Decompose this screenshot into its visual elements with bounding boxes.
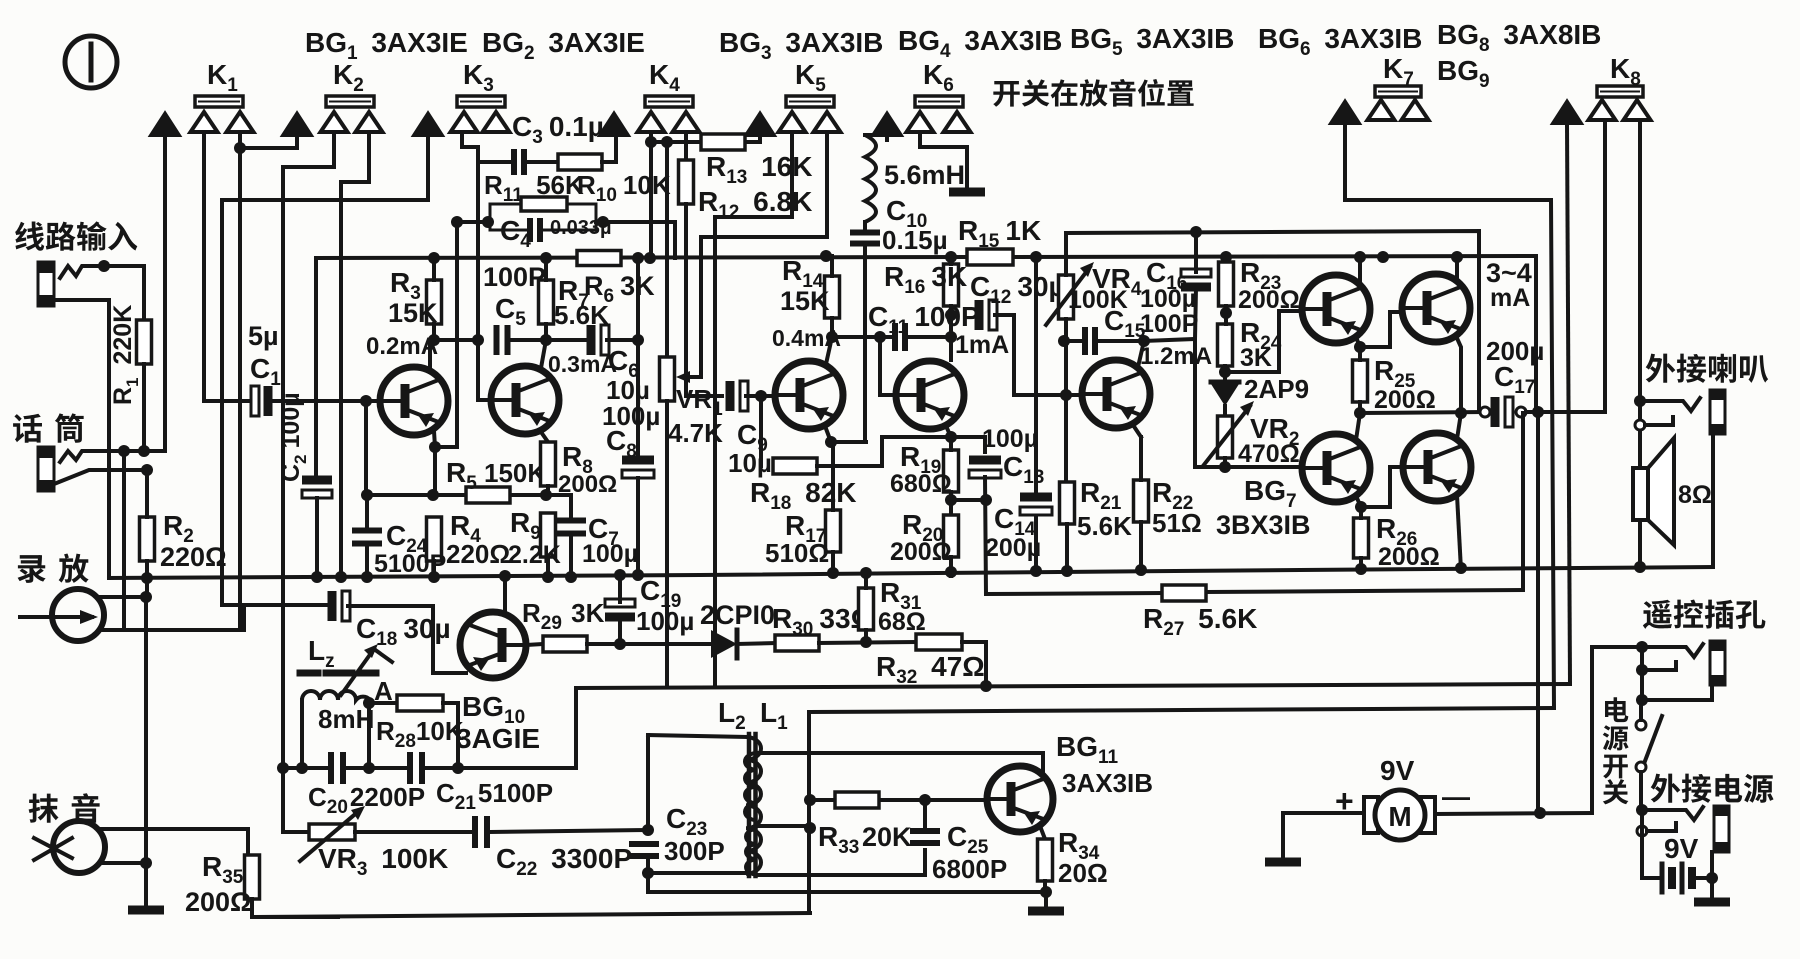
junction bias row R4 [427,489,439,501]
junction node A [363,697,375,709]
wire L1 center tap [757,824,810,828]
capacitor C19 (electrolytic) [605,599,635,607]
resistor R28 [397,695,443,711]
svg-text:300P: 300P [664,836,725,866]
wire BG5 base column [1064,341,1068,395]
svg-text:10µ: 10µ [728,448,772,478]
bus junction R4 [428,571,440,583]
figure number badge (1) [65,36,117,88]
resistor R4 [427,517,442,561]
resistor R11 [521,197,567,211]
wire R1 bottom [142,364,146,452]
bus junction speaker [1634,561,1646,573]
switch K1 bar [195,96,243,107]
wire BG10 collector [503,576,507,614]
bus junction R21 [1061,565,1073,577]
wire head riser to C18 row [242,606,246,630]
open contact arrow at x=1637 [1624,100,1651,120]
svg-text:9V: 9V [1664,833,1699,864]
svg-text:15K: 15K [780,286,830,316]
wire C13 bottom to R27 row [985,477,986,594]
resistor R20 [944,515,959,557]
wire collector row y340 left [434,338,478,342]
wire R32 right down [962,642,986,686]
svg-text:8Ω: 8Ω [1678,481,1712,509]
wire BG5 base lead [1066,393,1082,397]
transistor BG5 [1082,360,1150,428]
bus junction R22 [1135,564,1147,576]
wire C10 to BG3 emitter node [863,244,867,442]
bus A junction K7 contact [1377,251,1389,263]
wire BG6 collector [1358,257,1362,281]
wire speaker feed down [1536,412,1540,812]
junction BG4 emitter [945,431,957,443]
switch K2 bar [326,96,374,107]
svg-text:200Ω: 200Ω [185,887,252,917]
wire C4 left node [457,220,490,224]
wire R16 bottom to collector [949,315,953,360]
wire tri x240 shaft [238,134,242,630]
wire BG11 emitter [1040,826,1045,839]
wire C23 bottom [648,856,1046,892]
junction R3 bottom [428,334,440,346]
open contact arrow at x=686 [673,112,700,132]
junction speaker jack top [1634,395,1646,407]
svg-text:680Ω: 680Ω [890,470,952,498]
VR4 arrow [1046,267,1090,325]
junction BG1 base [360,395,372,407]
resistor R8 [541,442,556,486]
wire C5 right [509,338,590,342]
bus junction R26 [1355,563,1367,575]
svg-text:200Ω: 200Ω [1374,386,1436,414]
capacitor C13 (electrolytic) [969,456,1001,465]
bottom bus [252,913,810,917]
wire R19 stems [949,437,953,450]
wire ext jack sleeve [1710,852,1714,898]
power switch lever [1645,716,1662,761]
wire VR3 to C22 [355,830,472,834]
resistor R7 [539,280,554,324]
resistor R21 [1060,482,1075,524]
wire VR4 bottom [1064,319,1068,341]
wire motor to remote jack [1592,647,1642,813]
junction VR2 bottom [1219,461,1231,473]
junction R32 on bus2 [980,680,992,692]
rail y232 output stage [1066,231,1479,412]
wire R31 stems [864,573,868,588]
wire diode to VR2 [1223,406,1227,416]
resistor R15 [967,249,1013,265]
transistor BG2 [491,366,559,434]
svg-text:3AGIE: 3AGIE [456,723,540,754]
junction C12 node [945,309,957,321]
svg-text:—: — [1442,781,1470,812]
junction R23-R24 [1220,307,1232,319]
ext jack ring contact [1637,826,1647,836]
transistor BG7b [1403,433,1471,501]
wire x1036 column upper [1034,257,1038,495]
filled contact arrow at x=1567 [1552,100,1583,124]
svg-text:100µ: 100µ [582,540,638,568]
svg-text:3BX3IB: 3BX3IB [1216,510,1311,540]
wire R6 right column [636,258,640,455]
resistor R17 [826,510,841,552]
svg-text:15K: 15K [388,298,438,328]
wire VR1 bottom [665,401,669,687]
wire tri827 path [701,134,827,377]
wire erase upper lead [100,829,248,855]
label R1 220K [109,305,142,405]
junction C15 right [1138,335,1150,347]
junction mic sleeve [141,464,153,476]
junction remote top [1636,641,1648,653]
R11-C4 left link [490,204,530,230]
svg-text:M: M [1388,801,1411,832]
wire k-column x124 down [122,451,126,628]
capacitor C12 (electrolytic) [975,300,984,330]
transistor BG10 [460,612,526,678]
wire jack sleeve down [1711,434,1715,567]
transformer core [747,734,752,876]
svg-text:100µ: 100µ [982,425,1038,453]
junction C6 right [632,334,644,346]
wire L2 legs [648,871,746,875]
transistor BG3 [775,361,843,429]
wire BG4 emitter [946,426,951,437]
wire BG2 collector [541,340,546,368]
junction K4 wire [645,136,657,148]
wire C13 branch [951,437,985,452]
junction BG3 emitter [825,436,837,448]
wire battery right [1694,876,1712,880]
bus junction x341 [335,571,347,583]
wire L1 top lead [757,753,1043,775]
filled contact arrow at x=1345 [1330,100,1361,124]
label 话筒 [13,413,84,442]
open contact arrow at x=464 [451,112,478,132]
wire R33 row [810,798,835,802]
filled contact arrow at x=887 [872,112,903,136]
svg-text:510Ω: 510Ω [765,538,829,568]
resistor R27 [1162,585,1206,601]
wire R26 stems [1359,507,1363,518]
speaker jack tip contact [1640,398,1700,411]
wire line-in to R1 [104,266,144,320]
junction BG7a collector [1355,501,1367,513]
mic tip contact [60,451,165,462]
wire R20 bottom [949,557,953,576]
wire emitter row to C10 column [831,440,866,444]
bus junction R9 [542,571,554,583]
wire C3 row [478,160,514,164]
wire head upper lead [98,595,148,599]
speaker jack body [1710,390,1725,434]
switch K4 bar [645,96,693,107]
wire BG10 base to R29 [526,644,543,645]
wire BG7a emitter [1356,413,1360,440]
resistor R25 [1353,360,1368,402]
wire diode to R30 [737,643,775,644]
svg-text:200µ: 200µ [985,534,1041,562]
resistor R31 [859,588,874,630]
wire R34 bottom [1043,881,1047,892]
label 外接喇叭 [1646,354,1768,383]
resistor R13 [701,134,745,150]
open contact arrow at x=334 [321,112,348,132]
open contact arrow at x=204 [191,112,218,132]
wire L1 bottom lead [757,850,925,875]
label 录放 [18,554,89,583]
bus junction BG7b [1455,562,1467,574]
bus junction R17 [827,567,839,579]
wire R28 right [443,703,458,768]
wire R12 bottom to C9 [686,204,722,396]
wire choke to C10 [863,222,867,230]
contact circle C17 right [1516,407,1526,417]
capacitor C22 [472,816,478,848]
bus junction C24 [361,571,373,583]
capacitor C9 (electrolytic) [726,381,735,411]
speaker body [1633,468,1648,520]
open contact arrow at x=920 [907,112,934,132]
junction bias row R9 [540,489,552,501]
open contact arrow at x=240 [227,112,254,132]
junction C5 left [472,334,484,346]
wire R18 right up [817,437,948,466]
filled contact arrow at x=297 [282,112,313,136]
junction C25 top [919,794,931,806]
junction bias row left [361,489,373,501]
bus A junction R14 [820,250,832,262]
label 遥控插孔 [1643,600,1766,629]
capacitor C3 [511,149,517,175]
resistor R9 [541,513,556,557]
row y768 [283,766,327,770]
transistor BG4 [896,361,964,429]
open contact arrow at x=496 [483,112,510,132]
resistor R29 [543,636,587,652]
bus A junction BG8 collector [1451,251,1463,263]
svg-text:1.2mA: 1.2mA [1140,343,1212,370]
VR2 arrow [1203,406,1250,466]
wire C9 right to base [746,394,775,398]
battery 9V [1660,864,1665,892]
wire C15 row [1064,339,1085,343]
transistor BG8 [1402,274,1470,342]
record-play head [20,589,104,641]
wire BG4 base drop [880,337,896,395]
wire column x667 to VR1 [665,142,669,357]
wire head lower lead [100,628,240,632]
resistor R12 [679,160,694,204]
svg-text:5.6mH: 5.6mH [884,160,965,190]
bus A end down [1534,256,1538,412]
svg-text:3K: 3K [1240,344,1272,372]
bus A junction R7 [540,252,552,264]
ext jack body [1714,806,1729,852]
svg-text:4.7K: 4.7K [668,418,723,448]
wire C2 column top [314,258,318,479]
wire K8 arrow column [1567,124,1570,684]
junction R14 bottom [826,331,838,343]
junction C15 left [1058,335,1070,347]
wire BG5 collector [1138,341,1144,367]
switch K5 bar [786,96,834,107]
svg-text:51Ω: 51Ω [1152,508,1202,538]
junction R34 ground [1040,886,1052,898]
wire C17 row to K8 [1603,120,1607,412]
bus A junction R16 [945,251,957,263]
svg-text:6800P: 6800P [932,854,1007,884]
junction output node right [1455,407,1467,419]
wire R30 right [819,642,916,643]
wire BG1 emitter [434,431,435,495]
junction tri240/arrow297 [234,142,246,154]
wire tri651 shaft [649,134,653,142]
svg-text:100µ: 100µ [636,606,694,636]
line input tip contact [60,266,104,278]
inductor Lz dashes [300,670,318,677]
bus A junction R23 [1220,251,1232,263]
svg-text:8mH: 8mH [318,704,374,734]
wire column x478 [478,147,491,400]
svg-text:2CPI0: 2CPI0 [700,600,775,630]
remote jack ring contact [1636,664,1648,676]
wire mic row junctions [118,445,130,457]
resistor R18 [773,458,817,474]
rheostat VR2 [1218,416,1233,458]
wire line-in sleeve [54,300,109,452]
wire tri792 path [715,134,792,687]
wire bias row y495 [367,493,466,497]
wire C24 stems [365,495,369,531]
wire C12 to BG5 base [995,315,1066,395]
wire BG7b emitter [1457,413,1461,439]
capacitor C2 (electrolytic) [302,476,332,485]
resistor R10 [558,154,602,170]
filled contact arrow at x=760 [745,112,776,136]
bus A junction BG6 collector [1354,251,1366,263]
label 抹音 [29,793,100,823]
wire VR4 top [1064,233,1068,275]
bus A junction R3 [428,252,440,264]
wire collector row y337 [832,335,895,339]
wire BG7a collector [1356,496,1361,507]
wire BG5 base bias down [1064,395,1068,482]
capacitor C14 (electrolytic) [1020,493,1052,502]
resistor R16 [944,264,959,306]
wire arrow297 jog [240,138,297,148]
junction row768 A [363,762,375,774]
coil L1 [745,753,757,820]
label 电源开关 [1603,697,1629,804]
resistor R1 [137,320,152,364]
transistor BG1 [380,367,448,435]
junction R2 ground bus [141,572,153,584]
junction erase lower [140,857,152,869]
wire mic sleeve col to bus [107,452,111,578]
wire C8 bottom [636,478,640,577]
wire Lz left leg [300,700,304,768]
bus junction R19R20 [945,566,957,578]
junction ext power [1636,804,1648,816]
wire A to R28 [369,701,397,705]
junction BG4 base node [874,331,886,343]
capacitor C10 [850,230,880,236]
junction R24 bottom [1219,366,1231,378]
junction R7 bottom [540,334,552,346]
inductor Lz coil [302,691,370,700]
resistor R24 [1218,324,1233,366]
bus A junction R6 left [632,252,644,264]
transistor BG11 [987,766,1053,832]
wire column x222 to C18 row [222,200,331,605]
wire R21 bottom [1065,524,1069,570]
diode 2AP9 [1211,384,1239,406]
wire C25 stems [923,800,927,831]
resistor R22 [1134,480,1149,522]
wire arrow428 jog [222,138,428,200]
wire motor left [1283,811,1364,815]
rheostat VR1 [660,357,675,401]
svg-text:0.15µ: 0.15µ [882,225,948,255]
junction R31 bottom [860,636,872,648]
note 开关在放音位置 [993,79,1193,107]
bus junction C19 [614,569,626,581]
wire VR2 bottom [1223,458,1227,467]
line input jack body [38,262,54,306]
wire BG7b collector [1457,495,1461,570]
bus junction C8 [632,569,644,581]
svg-text:0.2mA: 0.2mA [366,333,438,360]
capacitor C5 [494,325,500,355]
erase head [34,821,105,873]
resistor R26 [1354,518,1369,558]
switch K7 bar [1375,86,1421,97]
wire battery left [1642,810,1660,878]
resistor R33 [835,792,879,808]
resistor R23 [1219,262,1234,306]
wire BG6 base path [1225,311,1303,372]
capacitor C16 (electrolytic) [1181,269,1211,277]
power switch top contact [1636,720,1646,730]
wire output row y413 [1360,412,1485,413]
filled contact arrow at x=165 [150,112,181,136]
wire speaker jack column [1638,120,1642,567]
svg-text:2.2K: 2.2K [508,541,561,569]
svg-text:220Ω: 220Ω [446,539,510,569]
wire BG8 collector [1455,257,1459,281]
wire K6 tri920 shaft [920,132,967,188]
wire switch top [1639,700,1643,720]
capacitor C21 [407,752,413,784]
wire C22 right [490,830,648,832]
ground at battery [1694,898,1730,907]
wire column x283 [281,167,285,768]
VR3 arrow [300,810,360,861]
filled contact arrow at x=428 [413,112,444,136]
capacitor C11 [892,323,898,351]
contact circle C17 left [1480,407,1490,417]
wire C4 right node [596,222,675,258]
junction C23 top [642,824,654,836]
wire R25 stems [1358,347,1362,360]
wire R14 stems [830,256,834,276]
resistor R2 [140,517,155,561]
resistor R34 [1038,839,1053,881]
ground at oscillator [1028,907,1064,916]
